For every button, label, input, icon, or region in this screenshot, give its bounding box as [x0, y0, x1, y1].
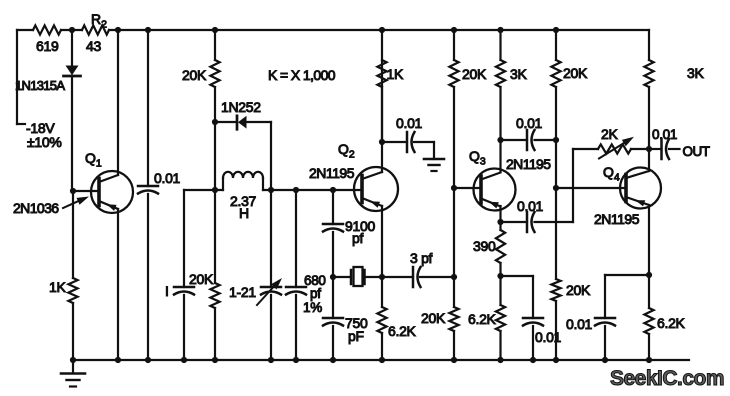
node bottom rail junction x605 [602, 357, 608, 363]
svg-text:0.01: 0.01 [516, 115, 543, 131]
node junction top rail at Q1 collector [115, 27, 121, 33]
svg-text:20K: 20K [421, 310, 446, 326]
label 1K [49, 279, 66, 295]
node junction top rail at 3K (Q3 collector) [497, 27, 503, 33]
node junction 1N252 / 1-21 [268, 187, 274, 193]
svg-text:2N1195: 2N1195 [309, 165, 355, 181]
svg-text:0.01: 0.01 [396, 115, 423, 131]
svg-text:±10%: ±10% [27, 134, 62, 150]
node junction 680pf [293, 187, 299, 193]
svg-text:OUT: OUT [683, 144, 710, 159]
node 390 bottom junction [497, 273, 503, 279]
label 750 pF [345, 315, 368, 344]
node junction top rail at 1K [379, 27, 385, 33]
resistor 1K (Q2 collector load) [377, 60, 386, 142]
node junction top rail at 20K [212, 27, 218, 33]
node bottom rail junction x73 [70, 357, 76, 363]
label 2N1195 (Q3) [506, 156, 551, 172]
label 0.01 [516, 115, 543, 131]
resistor 20K lower (x454) [449, 277, 458, 360]
node bottom rail junction x148 [145, 357, 151, 363]
resistor 1K (Q1 base to ground) [68, 191, 77, 360]
label 20K [421, 310, 446, 326]
svg-text:20K: 20K [566, 282, 591, 298]
svg-text:1%: 1% [303, 300, 322, 315]
node Q4 emitter 0.01 junction [646, 272, 652, 278]
label Q3 [469, 148, 486, 168]
svg-text:20K: 20K [462, 66, 487, 82]
svg-text:K = X 1,000: K = X 1,000 [268, 67, 336, 83]
wire Q4 emitter down [648, 205, 650, 308]
label 0.01 [652, 127, 677, 142]
resistor 20K upper (x556) [551, 30, 560, 140]
svg-text:0.01: 0.01 [566, 316, 593, 332]
wire Q1 collector to rail [117, 30, 119, 175]
arrow of potentiometer 2K [599, 137, 634, 159]
svg-text:2K: 2K [601, 126, 618, 142]
capacitor 680 pf 1% [286, 190, 306, 360]
svg-text:619: 619 [36, 38, 59, 54]
label 0.01 [535, 329, 562, 345]
node bottom rail junction x215 [212, 357, 218, 363]
capacitor 0.01 to ground (Q2 collector) [382, 132, 434, 159]
node junction 9100pf [330, 187, 336, 193]
label 6.2K [657, 315, 686, 331]
label 3K [510, 66, 527, 82]
label 20K [563, 65, 588, 81]
wire bottom ground rail [73, 359, 689, 361]
label 0.01 [396, 115, 423, 131]
capacitor 0.01 (Q3 emitter feedback) [501, 212, 574, 232]
resistor 20K upper (x215) [210, 30, 219, 122]
svg-text:Q3: Q3 [469, 148, 486, 168]
label 20K [462, 66, 487, 82]
potentiometer 2K [573, 144, 649, 153]
wire Q1 emitter down [117, 209, 119, 360]
resistor 3K (Q3 collector load) [496, 30, 505, 172]
label 1N1315A [15, 78, 65, 93]
label 6.2K [388, 323, 417, 339]
resistor 390 (Q3 emitter) [496, 230, 505, 276]
resistor 619 ohm [33, 25, 61, 54]
node 1N252 anode junction [212, 119, 218, 190]
label 2N1195 (Q4) [594, 211, 640, 227]
capacitor 0.01 supply bypass [138, 30, 158, 360]
wire Q4 base column [555, 140, 557, 279]
wire Q2 base net [184, 189, 362, 191]
svg-text:1K: 1K [387, 66, 404, 82]
resistor 20K upper (x454) [449, 30, 458, 188]
node bottom rail junction x556 [553, 357, 559, 363]
resistor 6.2K (Q4 emitter) [644, 308, 653, 360]
wire Q3 base column [453, 188, 455, 277]
node bottom rail junction x649 [646, 357, 652, 363]
svg-text:0.01: 0.01 [652, 127, 677, 142]
wire -18V supply branch [17, 30, 25, 124]
svg-text:1N1315A: 1N1315A [15, 78, 65, 93]
label 0.01 [566, 316, 593, 332]
node junction top rail at diode 1N1315A [69, 27, 75, 33]
label 1 [165, 283, 169, 299]
label 1N252 [221, 99, 261, 115]
label 2N1036 with pointer arrow [13, 197, 89, 217]
svg-text:6.2K: 6.2K [657, 315, 686, 331]
resistor R2 43 ohm [82, 11, 109, 54]
node bottom rail junction x118 [115, 357, 121, 363]
resistor 3K (Q4 collector load) [644, 30, 653, 149]
wire Q1 base [72, 190, 99, 192]
label 20K [182, 67, 207, 83]
capacitor 1 (input coupling) [174, 190, 194, 360]
label 2N1195 (Q2) [309, 165, 355, 181]
node junction top rail at 20K (Q3 base divider) [451, 27, 457, 33]
label 3 pf [410, 250, 433, 266]
label 3K [687, 65, 704, 81]
svg-text:0.01: 0.01 [535, 329, 562, 345]
transistor Q2 [354, 167, 398, 211]
svg-text:pf: pf [352, 230, 363, 246]
label 0.01 [517, 198, 544, 214]
wire Q2 collector to rail [381, 30, 383, 172]
svg-text:2N1195: 2N1195 [506, 156, 551, 172]
node bottom rail junction x533 [530, 357, 536, 363]
node 3pf right junction [451, 274, 457, 280]
node bottom rail junction x333 [330, 357, 336, 363]
svg-text:Q4: Q4 [603, 164, 620, 184]
wire feedback riser [572, 149, 574, 222]
svg-text:3 pf: 3 pf [410, 250, 433, 266]
transistor Q3 [474, 169, 516, 211]
capacitor 3 pf [382, 267, 454, 287]
svg-text:0.01: 0.01 [517, 198, 544, 214]
resistor 20K lower (x556) [551, 279, 560, 360]
svg-text:pF: pF [348, 328, 364, 344]
node Q2 collector 0.01 junction [379, 139, 385, 145]
capacitor 0.01 output [649, 139, 680, 159]
node 0.01 right junction [553, 137, 559, 143]
wire top supply rail [17, 29, 649, 31]
node bottom rail junction x454 [451, 357, 457, 363]
wire Q3 base [454, 187, 481, 189]
svg-text:6.2K: 6.2K [388, 323, 417, 339]
svg-text:20K: 20K [182, 67, 207, 83]
arrow of variable capacitor 1-21 [257, 278, 282, 305]
resistor 6.2K (Q2 emitter) [377, 277, 386, 360]
svg-text:pf: pf [310, 286, 321, 301]
svg-text:Q1: Q1 [85, 150, 102, 170]
diode 1N252 [215, 116, 271, 190]
label 20K [566, 282, 591, 298]
transistor Q1 [91, 171, 133, 213]
transistor Q4 [620, 168, 661, 209]
label K=X 1,000 note [268, 67, 336, 83]
svg-text:H: H [239, 205, 249, 221]
svg-text:43: 43 [86, 38, 101, 54]
label 1-21 [229, 284, 256, 300]
watermark SeekIC.com [610, 367, 724, 390]
node Q3 emitter junction [497, 219, 503, 225]
wire Q4 base [556, 187, 626, 189]
capacitor 0.01 (x605) [595, 275, 649, 360]
svg-text:SeekIC.com: SeekIC.com [610, 367, 724, 390]
node Q4 base junction [553, 185, 559, 191]
diode 1N1315A [64, 30, 81, 191]
node bottom rail junction x296 [293, 357, 299, 363]
svg-text:1N252: 1N252 [221, 99, 261, 115]
node junction 20K column [212, 187, 218, 193]
inductor 2.37H [223, 172, 263, 190]
svg-text:20K: 20K [563, 65, 588, 81]
node crystal left junction [330, 274, 336, 280]
svg-text:1-21: 1-21 [229, 284, 256, 300]
label 1K [387, 66, 404, 82]
label Q4 [603, 164, 620, 184]
label 6.2K [468, 311, 497, 327]
ground symbol bottom left [61, 360, 85, 387]
svg-text:3K: 3K [510, 66, 527, 82]
resistor 20K lower (x215) [210, 190, 219, 360]
svg-text:2N1195: 2N1195 [594, 211, 640, 227]
capacitor 750 pF [323, 277, 343, 360]
label 9100 pf [345, 218, 375, 246]
node bottom rail junction x184 [181, 357, 187, 363]
label Q1 [85, 150, 102, 170]
label 2K [601, 126, 618, 142]
capacitor 9100 pf [323, 190, 343, 277]
label 0.01 [154, 170, 181, 186]
crystal Y1 [333, 267, 382, 286]
wire Q4 collector [648, 149, 650, 171]
svg-text:2N1036: 2N1036 [13, 200, 59, 216]
capacitor 0.01 (x533) [501, 276, 544, 360]
svg-text:1K: 1K [49, 279, 66, 295]
svg-text:390: 390 [473, 238, 496, 254]
node Q3 collector 0.01 junction [497, 137, 503, 143]
resistor 6.2K (x502) [496, 276, 505, 360]
node bottom rail junction x271 [268, 357, 274, 363]
label OUT [683, 144, 710, 159]
node Q1 base junction [70, 188, 76, 194]
node crystal right junction (Q2 emitter) [379, 274, 385, 280]
node bottom rail junction x382 [379, 357, 385, 363]
wire Q2 emitter down [381, 206, 383, 277]
svg-text:Q2: Q2 [338, 141, 355, 161]
svg-text:20K: 20K [189, 271, 214, 287]
node Q3 base junction [451, 185, 457, 191]
label 390 [473, 238, 496, 254]
label 680 pf 1% [303, 273, 326, 315]
variable capacitor 1-21 [261, 190, 281, 360]
svg-text:6.2K: 6.2K [468, 311, 497, 327]
node junction top rail at 20K (Q4 base divider) [553, 27, 559, 33]
svg-text:I: I [165, 283, 169, 299]
node junction top rail at 0.01 bypass [145, 27, 151, 33]
svg-text:3K: 3K [687, 65, 704, 81]
node bottom rail junction x500.5 [497, 357, 503, 363]
svg-text:0.01: 0.01 [154, 170, 181, 186]
ground (after 0.01) [424, 159, 444, 171]
node Q4 collector junction [646, 146, 652, 152]
label 20K [189, 271, 214, 287]
label -18V supply [26, 120, 62, 150]
label 2.37 H [230, 193, 257, 221]
label Q2 [338, 141, 355, 161]
capacitor 0.01 (Q3 collector to x556) [501, 130, 557, 150]
wire Q3 emitter down [499, 206, 501, 230]
